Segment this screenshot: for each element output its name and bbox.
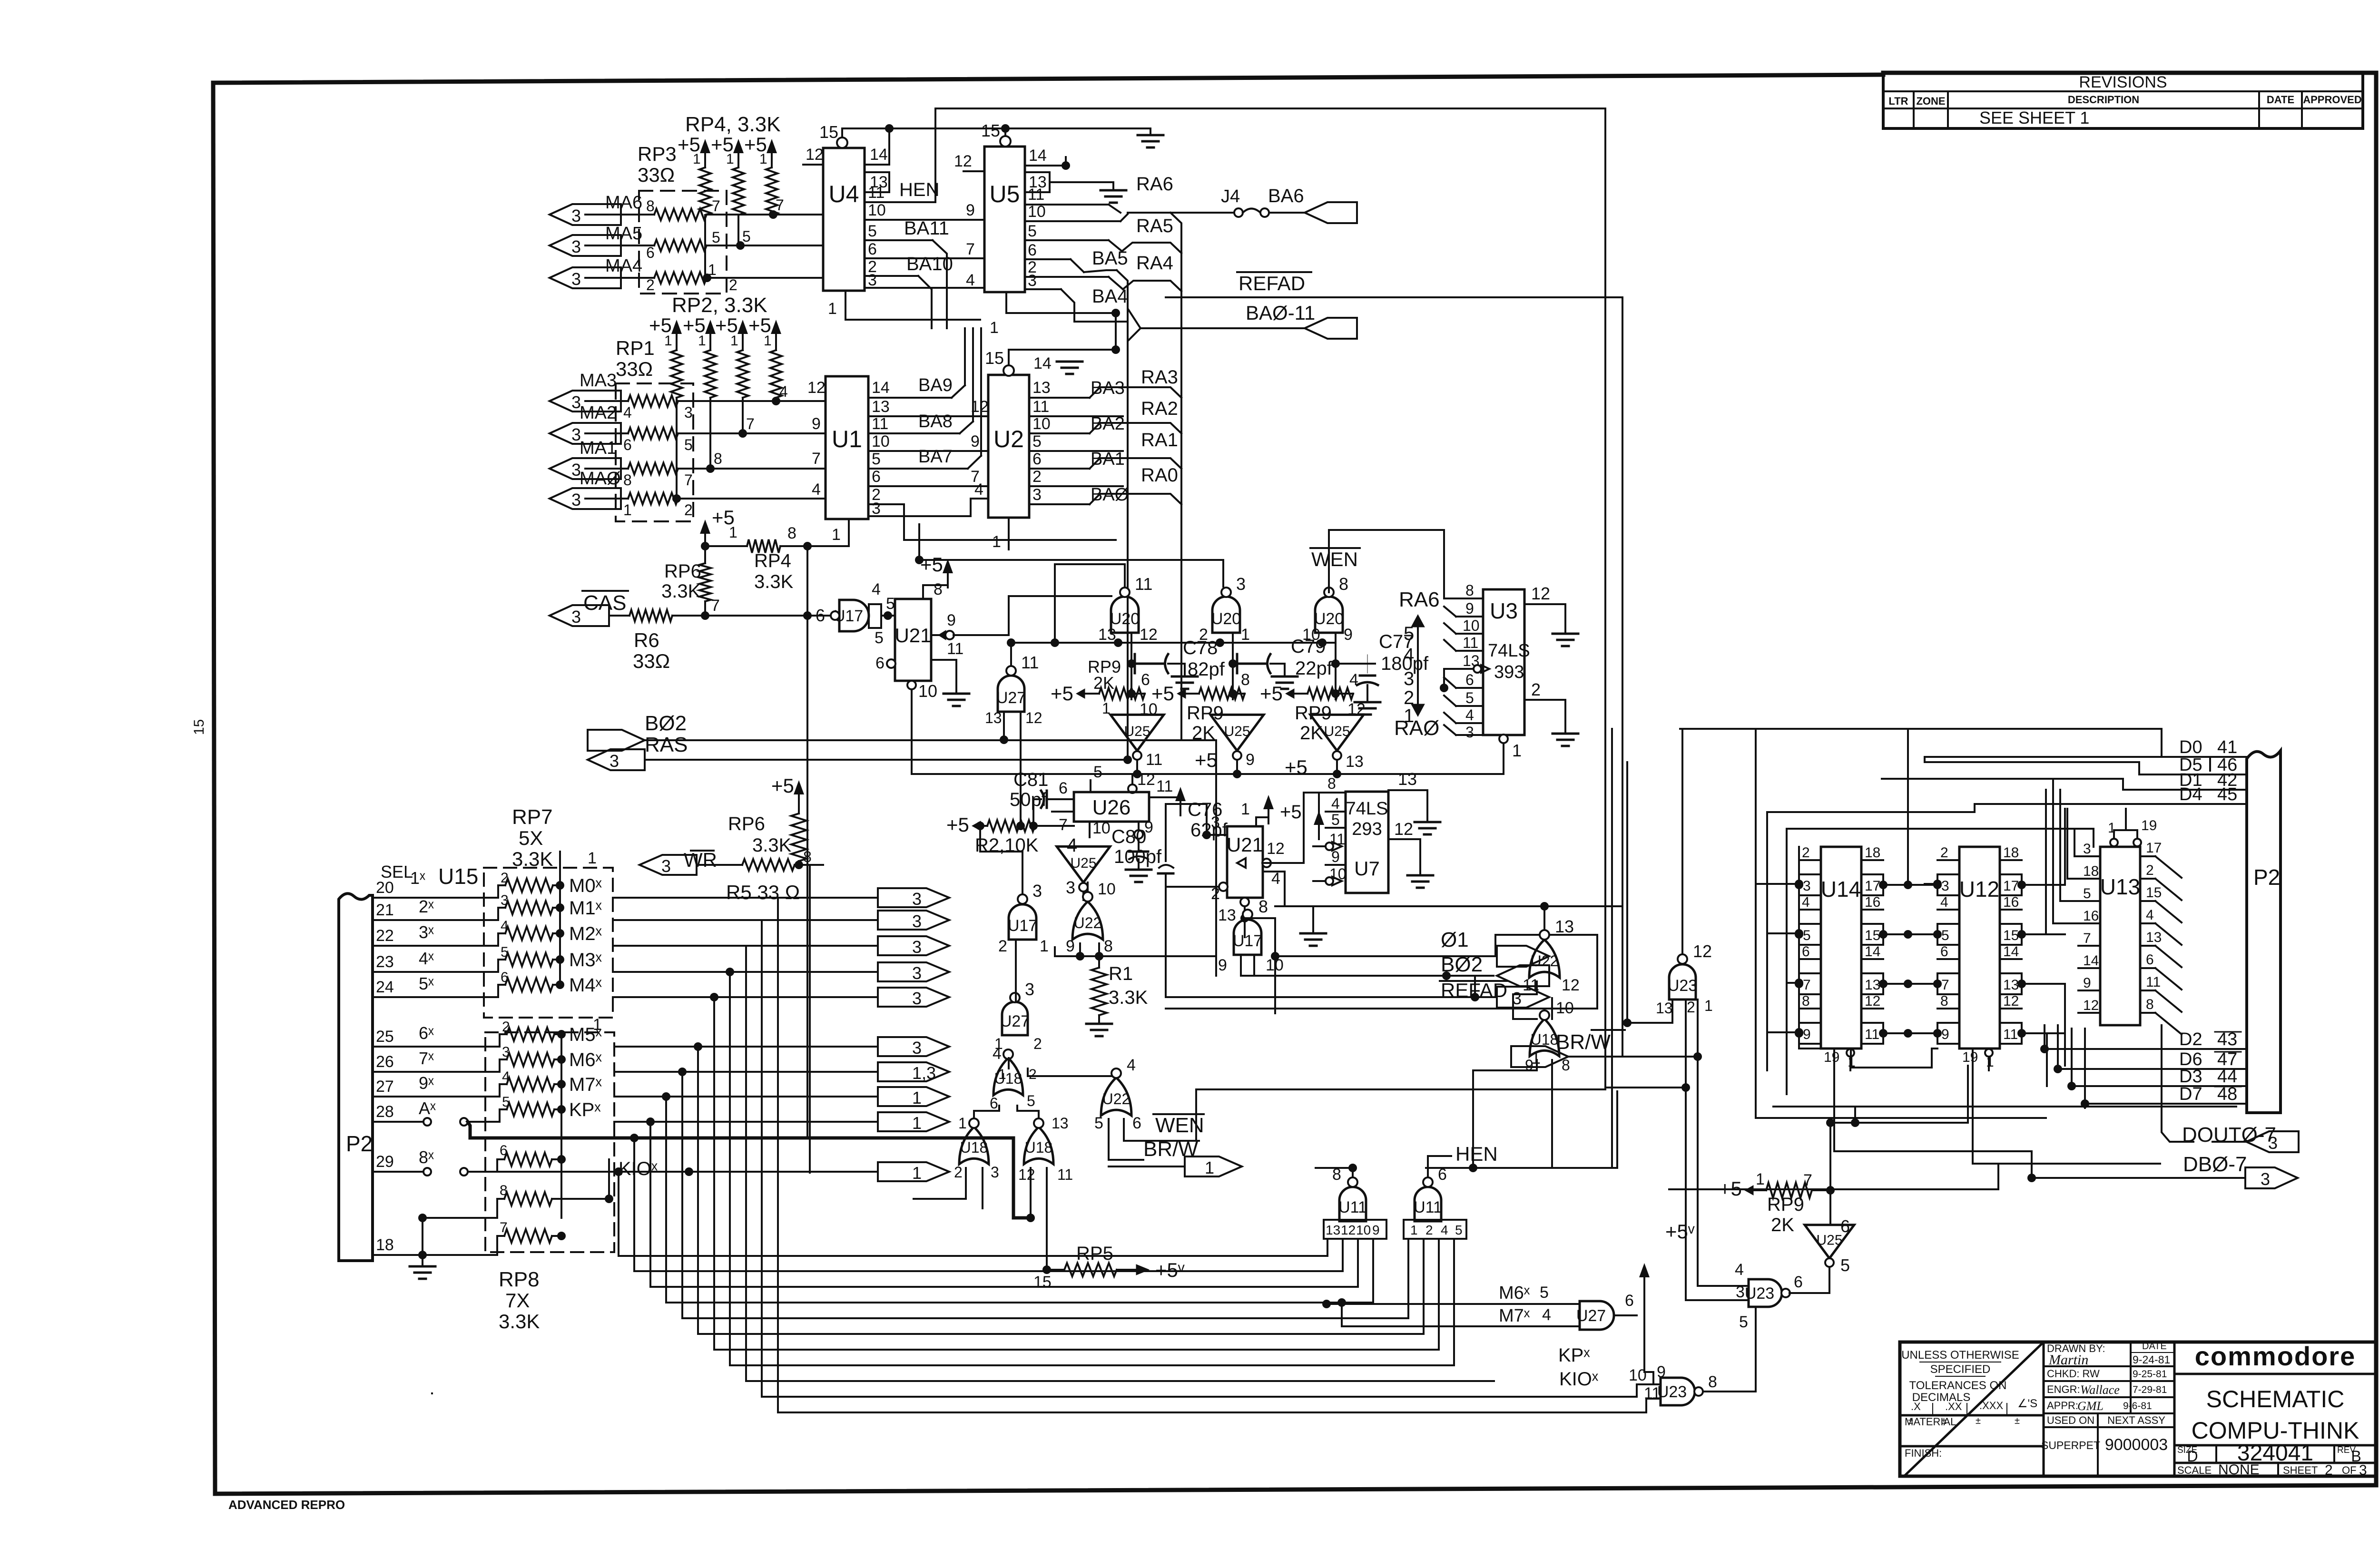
right block nest wires [1680,729,2247,847]
svg-text:3.3K: 3.3K [1109,987,1148,1008]
svg-text:18: 18 [2083,863,2099,879]
svg-text:9-25-81: 9-25-81 [2133,1369,2167,1380]
connector arrow MA6 [550,193,642,225]
svg-text:1: 1 [1410,1223,1418,1237]
resistor RP5 [1033,1185,1185,1291]
svg-text:11: 11 [1028,186,1044,204]
svg-text:12: 12 [1018,1166,1035,1183]
connector out arrow row 2 [878,911,949,931]
svg-text:MA4: MA4 [605,256,642,276]
wire U27a pin12 down [1016,712,1025,830]
RP1 resistor d [623,493,693,519]
svg-text:4: 4 [1441,1223,1448,1237]
svg-text:9: 9 [812,415,821,433]
svg-text:M3ˣ: M3ˣ [569,950,602,970]
U2 pin 11 wire [1029,398,1123,416]
svg-text:5: 5 [1540,1284,1549,1302]
wire U18b in [914,1168,983,1208]
svg-text:2: 2 [998,937,1007,955]
svg-text:RP6: RP6 [728,813,765,834]
U21a pin 9 wire [954,596,1111,635]
svg-text:10: 10 [1092,819,1111,837]
RP3 resistor c [646,261,737,294]
IC U5 [984,147,1025,292]
U2 pin 10 BA2 [1029,414,1125,434]
svg-text:13: 13 [2146,930,2162,945]
svg-text:U25: U25 [1324,724,1350,739]
svg-text:M7ˣ: M7ˣ [569,1074,602,1095]
U5 pin 10 wire [1025,203,1128,221]
svg-text:Ø1: Ø1 [1441,928,1469,951]
connector arrow DOUT [2246,1131,2299,1153]
svg-text:MATERIAL.: MATERIAL. [1905,1416,1959,1428]
svg-text:RP5: RP5 [1076,1243,1113,1264]
svg-text:3: 3 [571,269,581,289]
svg-text:3: 3 [2261,1169,2270,1189]
revisions table [1883,72,2363,128]
wire MA3 row [585,397,826,405]
U21b pin 1 [1241,756,1307,826]
wire D0 [2179,737,2247,757]
U2 pin 3 BA0 [1029,485,1129,505]
svg-text:RP2, 3.3K: RP2, 3.3K [672,294,767,317]
svg-text:U21: U21 [895,624,931,647]
svg-text:SPECIFIED: SPECIFIED [1930,1363,1991,1376]
wire D7 [2081,1084,2247,1108]
ground at U5 top rail [1138,128,1163,147]
staircase bus wire 10 [762,920,1637,1397]
svg-text:9: 9 [1372,1223,1380,1237]
resistor RP9d [1719,1170,1835,1235]
svg-text:5: 5 [1465,689,1474,706]
svg-text:C78: C78 [1183,637,1218,658]
svg-text:7: 7 [1803,977,1811,993]
resistor pack RP7 dashed box [484,805,613,1018]
svg-text:2: 2 [729,276,737,294]
connector arrow MA4 [550,256,642,289]
svg-text:9: 9 [966,201,975,219]
svg-text:11: 11 [1156,777,1173,795]
svg-text:8ˣ: 8ˣ [419,1147,434,1167]
svg-text:RA4: RA4 [1136,253,1173,274]
svg-text:4: 4 [872,580,881,598]
resistor R1 [1086,956,1148,1036]
svg-text:9ˣ: 9ˣ [419,1073,434,1093]
svg-text:+5: +5 [946,813,969,836]
svg-text:12: 12 [1341,1223,1356,1237]
U2 pin 6 BA1 [1029,449,1125,469]
svg-text:ADVANCED REPRO: ADVANCED REPRO [228,1498,345,1512]
resistor RP6 vertical [661,506,735,616]
svg-text:10: 10 [1463,617,1480,634]
U7 left pins [1313,795,1347,885]
svg-text:14: 14 [872,379,890,397]
svg-text:RA1: RA1 [1141,430,1178,451]
svg-text:25: 25 [376,1028,394,1046]
RP7 resistor row M3ˣ [373,944,602,972]
right block inner verticals [1799,847,1937,1068]
staircase bus wire 6 [694,1042,1424,1334]
wire U26 pin12 up [1128,771,1155,793]
svg-text:7: 7 [2083,931,2091,946]
svg-text:4: 4 [1542,1306,1551,1324]
U14 U12 interconnect wires [1883,729,2065,1086]
svg-text:6: 6 [816,606,825,625]
right block bottom wires [1756,1066,2236,1127]
svg-text:REVISIONS: REVISIONS [2079,73,2167,91]
connector out arrow row 5 [878,988,949,1008]
svg-text:8: 8 [1465,582,1474,599]
svg-text:6: 6 [990,1095,998,1112]
svg-text:RA6: RA6 [1399,588,1440,611]
svg-text:17: 17 [1865,878,1880,894]
gate U22b [1094,1056,1141,1132]
IC U1 [826,376,868,519]
svg-text:3: 3 [2083,841,2091,857]
connector arrow WR [639,855,697,876]
svg-text:2: 2 [684,501,693,519]
wire U17b pin13 link [1245,918,1275,1013]
U1 pin 1 stub [832,519,849,546]
gate U11a [1414,1166,1447,1221]
inverter U25d [1057,835,1110,897]
U21a pin 8 [920,553,953,599]
svg-text:6: 6 [1802,944,1810,960]
svg-text:R6: R6 [634,629,659,651]
svg-text:U22: U22 [1531,952,1559,970]
svg-text:12: 12 [1140,626,1158,644]
IC U21a [895,599,931,681]
wire U17c out up [976,822,1022,894]
wire U22c out up [1540,902,1549,930]
wire U20a input rail [1055,564,1125,643]
svg-text:26: 26 [376,1053,394,1071]
connector out arrow row 1 [878,888,949,909]
gate U27a [985,638,1042,726]
svg-text:7: 7 [1803,1171,1812,1189]
svg-text:17: 17 [2003,878,2019,894]
net label B02 [1441,953,1483,976]
svg-text:14: 14 [1029,147,1047,165]
gate U17a [816,580,884,647]
IC U21b [1227,826,1263,898]
BA feeder risers [932,266,981,456]
svg-text:15: 15 [985,348,1004,368]
svg-text:4: 4 [1331,795,1340,812]
svg-text:+5: +5 [1051,682,1073,705]
bus merge chevron [1128,309,1140,341]
U4 pin 13 notch [865,172,889,192]
RP4 label [685,113,781,136]
svg-text:RP9: RP9 [1767,1194,1804,1215]
U21b pin 2 [1166,882,1228,997]
U21b pin 12 [1237,793,1323,868]
M6x M7x to U27c [1322,1283,1580,1326]
U1 pin 13 wire [868,398,989,416]
svg-text:SEE SHEET 1: SEE SHEET 1 [1979,108,2089,127]
wire U23b out [1703,1307,1756,1392]
svg-text:12: 12 [1394,819,1413,839]
svg-text:2: 2 [1425,1223,1433,1237]
svg-text:8: 8 [1258,897,1268,916]
svg-text:6: 6 [1940,944,1948,960]
net label RA3 [1141,367,1178,388]
wire gate row 1351 [1009,638,1336,647]
svg-text:8: 8 [1708,1373,1717,1391]
svg-text:27: 27 [376,1078,394,1096]
svg-text:11: 11 [872,415,888,433]
capacitor C81 [1010,769,1052,830]
svg-text:U1: U1 [832,426,862,452]
svg-text:15: 15 [191,719,207,735]
svg-text:15: 15 [819,122,838,142]
svg-text:11: 11 [2003,1027,2018,1042]
connector arrow MA1 [550,438,621,480]
svg-text:MAØ: MAØ [580,469,621,489]
svg-text:8: 8 [646,197,655,215]
svg-text:6: 6 [646,244,655,261]
svg-text:11: 11 [1463,634,1478,651]
svg-text:6: 6 [1794,1273,1803,1291]
svg-text:U21: U21 [1227,833,1263,856]
svg-text:19: 19 [1824,1049,1839,1065]
wire D3 [2067,1067,2247,1090]
svg-text:+5ᵛ: +5ᵛ [1665,1220,1695,1243]
svg-text:MA1: MA1 [580,438,617,458]
U5 pin 11 RA6 wire [1025,186,1121,213]
connector out arrow row 6 [878,1037,949,1058]
RP2 label [672,294,767,317]
svg-text:8: 8 [2146,997,2154,1012]
wire RA1 row [1090,458,1181,469]
gate U27b [994,980,1042,1052]
wire D2 [2040,1029,2247,1053]
inverter U25c [1310,715,1364,771]
svg-text:1: 1 [730,333,738,349]
wire KIO run [497,1167,878,1176]
svg-text:16: 16 [2003,894,2019,910]
svg-text:2: 2 [1029,1067,1037,1082]
svg-text:R5 33 Ω: R5 33 Ω [726,881,800,903]
wire U20c out [1331,633,1340,699]
svg-text:3.3K: 3.3K [754,571,794,592]
svg-text:13: 13 [1098,626,1116,644]
svg-text:KPˣ: KPˣ [569,1099,601,1120]
wire U22b in5 BRW [1109,1119,1199,1161]
svg-text:C80: C80 [1111,826,1146,847]
U3 pin 2 gnd [1524,680,1578,746]
RA bus arrow [1394,588,1440,740]
svg-text:±: ± [1976,1416,1981,1426]
svg-text:7: 7 [712,197,720,215]
svg-text:SHEET: SHEET [2283,1464,2318,1476]
U2 pin 1 stub [992,518,1009,551]
RP8 common rail [561,1016,602,1218]
svg-text:RP7: RP7 [512,805,553,829]
wire BRW right line [1568,1052,1702,1061]
RP1 resistor b [623,428,693,453]
svg-text:1: 1 [912,1163,922,1183]
svg-text:M0ˣ: M0ˣ [569,875,602,896]
U4 pin 10 wire [865,201,984,220]
svg-text:U3: U3 [1490,598,1518,623]
svg-text:1: 1 [764,333,772,349]
svg-text:BR/W: BR/W [1556,1030,1611,1054]
svg-text:1: 1 [1986,1054,1994,1070]
U1 pin 5 BA7 [868,447,981,469]
wire bottom link 2286 [1605,1083,1690,1092]
svg-text:12: 12 [1025,709,1042,726]
svg-text:9: 9 [1465,600,1474,617]
svg-text:13: 13 [872,398,890,416]
svg-text:U2: U2 [993,426,1024,452]
capacitor C78 [1127,637,1225,689]
U2 pin 14 gnd [1033,354,1082,374]
svg-text:MA3: MA3 [580,371,617,391]
U7 pin 13 gnd [1388,769,1440,834]
svg-text:Wallace: Wallace [2080,1383,2120,1397]
RA5 label [1136,216,1173,236]
svg-text:DBØ-7: DBØ-7 [2183,1153,2247,1176]
gate U23c [1735,1261,1803,1307]
svg-text:13: 13 [1656,1000,1673,1017]
inverter U25e [1805,1216,1854,1275]
svg-text:D0: D0 [2179,737,2202,757]
svg-text:5: 5 [1093,763,1102,781]
svg-text:+5: +5 [920,553,943,576]
U2 pin 2 wire [1029,468,1123,486]
svg-text:3: 3 [1066,878,1075,897]
net label KIOx [1559,1369,1599,1390]
svg-text:14: 14 [870,146,888,164]
svg-text:D7: D7 [2179,1084,2202,1104]
svg-text:.XX: .XX [1945,1401,1962,1412]
wire HEN right drop [1604,108,1606,1088]
svg-text:U18: U18 [1025,1139,1053,1156]
svg-text:45: 45 [2217,784,2237,804]
svg-text:GML: GML [2077,1399,2104,1413]
svg-text:U27: U27 [1000,1012,1030,1030]
svg-text:U15: U15 [438,864,478,889]
svg-text:+5: +5 [1260,682,1283,705]
svg-text:4: 4 [974,480,983,499]
svg-text:5: 5 [1941,928,1949,943]
svg-text:RP4: RP4 [754,550,791,571]
svg-text:3: 3 [912,889,922,909]
net label REFAD2 [1440,979,1507,1001]
svg-text:3: 3 [1465,724,1474,741]
resistor RP6b vertical [728,774,812,865]
IC U12 [1933,845,2026,1070]
wire U18d out HEN [1469,1060,1537,1172]
svg-text:U25: U25 [1070,855,1096,871]
connector arrow BRW2 [1511,1046,1568,1068]
svg-text:6: 6 [1059,779,1068,797]
svg-text:1: 1 [664,333,672,349]
svg-text:11: 11 [1865,1027,1879,1042]
svg-text:SCALE: SCALE [2177,1464,2212,1476]
staircase bus wire 4 [662,1092,1373,1303]
gate U18c [1018,1115,1073,1183]
svg-text:5X: 5X [519,827,543,849]
svg-text:6: 6 [1840,1216,1850,1236]
U5 pin 14 wire [1025,147,1070,170]
resistor pack RP1 dashed box [616,337,693,521]
U1 pin 2 wire [868,486,1116,540]
svg-text:RAS: RAS [645,733,688,756]
svg-text:HEN: HEN [899,179,939,200]
wire U17b out [1241,955,1254,976]
capacitor C79 [1229,636,1333,689]
svg-text:U22: U22 [1074,914,1102,931]
wire MA0 row [585,494,826,503]
connector arrow BA0-11 [1305,318,1357,339]
svg-text:ZONE: ZONE [1916,95,1945,107]
svg-text:13: 13 [1555,917,1574,936]
U11a pin box [1404,1220,1466,1239]
U14 left nest feeds [1756,880,1803,1037]
svg-text:10: 10 [1032,415,1051,433]
svg-text:8: 8 [934,580,943,598]
wire row 1905 [1275,905,1622,907]
svg-text:15: 15 [981,121,1000,140]
svg-text:3: 3 [1803,878,1811,894]
svg-text:6: 6 [1465,671,1474,688]
svg-text:Aˣ: Aˣ [419,1098,436,1118]
gate U20a [1098,574,1158,644]
svg-text:1: 1 [1040,937,1049,955]
connector out arrow row 7 [878,1062,949,1083]
wire U23c out [1789,1266,1829,1293]
svg-text:HEN: HEN [1455,1143,1498,1165]
wire J4 BA6 [1128,208,1305,217]
svg-text:10: 10 [1098,880,1116,898]
svg-text:13: 13 [1326,1223,1340,1237]
svg-text:3: 3 [571,607,581,627]
svg-text:4: 4 [2146,907,2154,923]
svg-text:U25: U25 [1816,1232,1842,1248]
svg-text:C81: C81 [1013,769,1048,790]
net label KPx [1558,1345,1590,1366]
net label RA1 [1141,430,1178,451]
svg-text:KPˣ: KPˣ [1558,1345,1590,1366]
svg-text:P2: P2 [346,1131,373,1156]
svg-text:2: 2 [1531,680,1541,699]
RP8 row 7 [373,1220,566,1259]
svg-text:+5: +5 [1195,749,1218,771]
svg-text:4: 4 [1271,870,1280,888]
svg-text:8: 8 [787,524,796,542]
svg-text:1: 1 [1241,626,1250,644]
U21b pin 13 [1218,898,1249,924]
staircase bus wire 7 [710,993,1439,1350]
connector arrow MA3 [550,371,621,412]
inverter U25a [1111,715,1164,769]
svg-text:4ˣ: 4ˣ [419,949,434,968]
U15 label [438,864,478,889]
svg-text:4: 4 [1404,645,1414,666]
svg-text:1: 1 [912,1088,922,1107]
svg-text:BØ2: BØ2 [645,712,687,735]
svg-text:RA0: RA0 [1141,465,1178,486]
svg-text:5: 5 [872,450,881,468]
gate U22c [1523,917,1580,994]
svg-text:12: 12 [1865,993,1880,1009]
svg-text:1: 1 [1531,1048,1541,1068]
U5 pin 5 RA5 wire [1025,222,1122,251]
svg-text:18: 18 [2003,845,2019,861]
svg-text:24: 24 [376,978,394,996]
